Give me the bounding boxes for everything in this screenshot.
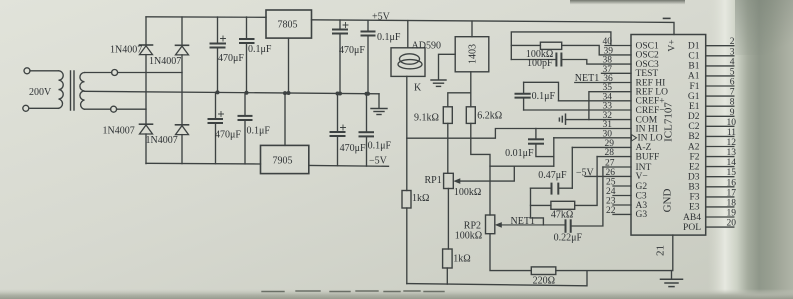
- node dot: [366, 92, 370, 96]
- wire AD590 K output column: [406, 76, 408, 190]
- wire IN LO pin 30 column: [553, 138, 555, 166]
- capacitor 0.01uF (input filter): [529, 129, 554, 157]
- transformer T primary winding: [23, 68, 63, 112]
- IC U ICL7107 body: [631, 35, 706, 236]
- oscillator loop wire (pin 40): [511, 32, 631, 60]
- wire top positive rail (rectifier to 7805): [146, 16, 266, 19]
- svg-text:RP1: RP1: [425, 175, 442, 186]
- svg-text:1N4007: 1N4007: [146, 135, 178, 146]
- pin 35 stub and tie to COM: [589, 92, 631, 120]
- node dot: [245, 91, 249, 95]
- svg-text:A1: A1: [688, 72, 700, 82]
- pin 27 stub (INT): [603, 166, 631, 168]
- svg-text:B3: B3: [688, 183, 699, 193]
- pin 26 stub (V-): [585, 175, 631, 177]
- reference U 1403: [455, 21, 489, 72]
- svg-text:8: 8: [730, 98, 735, 108]
- transformer core: [71, 71, 75, 110]
- svg-text:9.1kΩ: 9.1kΩ: [414, 113, 439, 124]
- svg-text:0.1μF: 0.1μF: [247, 126, 271, 137]
- diode D1 1N4007 column A top: [140, 17, 153, 124]
- capacitor 470uF (output +5V): [333, 20, 348, 94]
- wire secondary bottom to diode column A: [117, 108, 146, 110]
- pin 29 stub (A-Z): [572, 146, 631, 148]
- potentiometer RP2 100k: [486, 215, 566, 271]
- svg-text:470μF: 470μF: [215, 130, 241, 141]
- svg-text:15: 15: [727, 168, 737, 178]
- potentiometer RP1 100k: [444, 166, 515, 249]
- svg-text:G1: G1: [688, 92, 700, 102]
- capacitor 0.1uF (input filter, - rail): [239, 93, 252, 164]
- svg-text:B1: B1: [688, 62, 699, 72]
- wire +5V rail (7805 to ICL7107 V+): [312, 20, 675, 35]
- svg-text:POL: POL: [683, 223, 701, 233]
- wire 1403 ground pin: [439, 54, 456, 79]
- svg-text:10: 10: [727, 118, 737, 128]
- wire bottom negative rail (rectifier to 7905): [146, 162, 261, 165]
- svg-text:100pF: 100pF: [527, 58, 553, 69]
- svg-text:V−: V−: [636, 172, 648, 182]
- svg-text:14: 14: [727, 158, 737, 168]
- svg-text:G2: G2: [636, 182, 648, 192]
- svg-text:E3: E3: [689, 203, 700, 213]
- svg-text:25: 25: [606, 178, 616, 188]
- wire IN LO node (6.2k/RP2 tap to pin 30 column): [490, 165, 554, 167]
- svg-text:AB4: AB4: [683, 213, 701, 223]
- resistor 220 Ohm: [531, 267, 671, 275]
- capacitor 0.47uF (auto-zero): [531, 147, 573, 193]
- capacitor 0.1uF (reference): [516, 82, 559, 110]
- svg-text:K: K: [414, 83, 422, 94]
- svg-text:470μF: 470μF: [339, 45, 365, 56]
- capacitor 0.22uF (integrator): [566, 167, 603, 232]
- node dot: [283, 91, 287, 95]
- pin 30 stub (IN LO): [554, 137, 631, 139]
- pin 34 stub (CREF+): [559, 100, 632, 102]
- pin 36 stub (REF HI, NET1): [575, 82, 631, 84]
- pin names left column: [636, 41, 669, 220]
- svg-text:0.1μF: 0.1μF: [368, 141, 392, 152]
- wire AD590 K to IN HI (pin 31): [407, 129, 631, 139]
- svg-text:+5V: +5V: [372, 12, 391, 23]
- svg-text:C3: C3: [636, 191, 647, 201]
- svg-text:2: 2: [730, 37, 735, 47]
- capacitor 470uF (input filter, - rail): [209, 92, 224, 163]
- resistor 47k (integrator): [531, 157, 598, 210]
- pin 30 input arrow marker: [632, 135, 637, 141]
- pin names right column: [683, 42, 701, 233]
- svg-text:0.01μF: 0.01μF: [505, 148, 534, 159]
- svg-text:D2: D2: [688, 112, 700, 122]
- svg-text:F2: F2: [689, 152, 699, 162]
- svg-text:28: 28: [605, 148, 615, 158]
- svg-text:CREF−: CREF−: [636, 106, 665, 116]
- right pin stubs 2-20: [706, 46, 734, 227]
- resistor 6.2k: [466, 107, 490, 215]
- svg-text:V+: V+: [668, 39, 678, 51]
- regulator U 7905: [261, 145, 309, 173]
- pin 28 stub (BUFF): [597, 156, 631, 158]
- caption fragment marks (clipped figure caption): [262, 290, 444, 293]
- svg-text:A2: A2: [688, 142, 700, 152]
- node dot: [365, 92, 369, 96]
- svg-text:AD590: AD590: [412, 41, 441, 52]
- svg-text:7805: 7805: [278, 20, 298, 31]
- svg-text:0.1μF: 0.1μF: [532, 91, 556, 102]
- svg-text:BUFF: BUFF: [636, 152, 660, 162]
- capacitor 0.1uF (output +5V): [362, 20, 375, 94]
- pin 25 stub: [613, 185, 631, 187]
- resistor 100k (oscillator): [511, 42, 631, 55]
- svg-text:33: 33: [603, 102, 613, 112]
- svg-text:6.2kΩ: 6.2kΩ: [477, 111, 502, 122]
- regulator U 7805: [266, 10, 312, 38]
- top edge dark streak: [570, 0, 685, 5]
- svg-text:0.47μF: 0.47μF: [538, 170, 567, 181]
- svg-text:E1: E1: [689, 102, 700, 112]
- svg-text:4: 4: [730, 57, 735, 67]
- svg-text:22: 22: [606, 206, 616, 216]
- node dot: [216, 90, 220, 94]
- ground symbol (digital ground): [661, 279, 683, 286]
- resistor 1k (divider bottom): [443, 249, 453, 284]
- diode D4 1N4007 column B bottom: [176, 125, 189, 164]
- pin 24 stub: [613, 195, 631, 197]
- svg-text:5: 5: [730, 67, 735, 77]
- svg-text:11: 11: [727, 128, 736, 138]
- svg-text:470μF: 470μF: [340, 143, 366, 154]
- wire ground center line: [85, 91, 380, 94]
- svg-text:0.1μF: 0.1μF: [377, 32, 401, 43]
- svg-text:C1: C1: [688, 52, 699, 62]
- ground symbol (1403): [431, 80, 446, 86]
- pin 37 stub: [602, 72, 632, 74]
- svg-text:C2: C2: [688, 122, 699, 132]
- capacitor 0.1uF (input filter, + rail): [240, 17, 254, 93]
- svg-text:220Ω: 220Ω: [533, 276, 555, 287]
- svg-text:17: 17: [727, 188, 737, 198]
- svg-text:24: 24: [606, 187, 616, 197]
- svg-text:100kΩ: 100kΩ: [455, 231, 482, 242]
- svg-text:F3: F3: [689, 193, 699, 203]
- wire 1403 output to resistor divider: [448, 72, 471, 107]
- svg-text:21: 21: [655, 245, 667, 256]
- svg-text:7905: 7905: [273, 156, 293, 167]
- wire ICL7107 pin21 to ground: [672, 235, 673, 279]
- svg-text:30: 30: [603, 129, 613, 139]
- svg-text:18: 18: [727, 198, 737, 208]
- resistor 9.1k: [443, 107, 452, 174]
- pin numbers right column: [727, 37, 737, 228]
- svg-text:47kΩ: 47kΩ: [551, 210, 573, 221]
- wire GND bottom rail: [407, 271, 587, 286]
- pin 22 stub: [613, 213, 631, 215]
- svg-text:1kΩ: 1kΩ: [412, 193, 429, 204]
- svg-text:26: 26: [606, 168, 616, 178]
- node dot: [336, 92, 340, 96]
- node dot: [338, 92, 342, 96]
- ground symbol (analog ground of supply): [371, 94, 387, 115]
- svg-text:7: 7: [730, 88, 735, 98]
- pin 23 stub: [613, 204, 631, 206]
- wire secondary top to diode column B: [118, 72, 182, 74]
- svg-text:13: 13: [727, 148, 737, 158]
- diode D2 1N4007 column B top: [176, 17, 189, 125]
- svg-text:F1: F1: [689, 82, 699, 92]
- common symbol (rotated ground at COM): [559, 114, 565, 124]
- svg-text:16: 16: [727, 178, 737, 188]
- svg-text:IN LO: IN LO: [638, 134, 663, 144]
- svg-text:3: 3: [730, 47, 735, 57]
- svg-text:200V: 200V: [29, 87, 52, 98]
- small scan artifact dash: [664, 17, 670, 19]
- wire 7805 GND pin to ground line: [288, 38, 290, 93]
- svg-text:12: 12: [727, 138, 737, 148]
- pin 33 stub (CREF-): [524, 109, 631, 111]
- svg-text:9: 9: [730, 108, 735, 118]
- wire junction J down-step to NET1 line: [531, 188, 544, 225]
- svg-text:1N4007: 1N4007: [149, 56, 181, 67]
- capacitor 470uF (input filter, + rail): [211, 17, 226, 92]
- capacitor 100pF (oscillator): [511, 54, 631, 66]
- svg-text:1kΩ: 1kΩ: [453, 254, 470, 265]
- transformer T secondary winding: [80, 70, 118, 113]
- svg-text:0.1μF: 0.1μF: [248, 44, 272, 55]
- node dot: [287, 91, 291, 95]
- svg-text:1N4007: 1N4007: [110, 45, 142, 56]
- svg-text:19: 19: [727, 209, 737, 219]
- wire -5V rail (7905 output): [309, 164, 389, 167]
- capacitor 0.1uF (output -5V): [360, 94, 374, 166]
- wire 7905 GND pin to ground line: [284, 93, 286, 145]
- svg-text:470μF: 470μF: [218, 53, 244, 64]
- svg-text:E2: E2: [689, 162, 700, 172]
- svg-text:NET1: NET1: [575, 73, 599, 84]
- bottom edge strip: [0, 289, 793, 299]
- diode D3 1N4007 column A bottom: [140, 124, 153, 163]
- svg-text:−5V: −5V: [369, 156, 388, 167]
- capacitor 470uF (output -5V): [331, 94, 346, 166]
- svg-text:0.22μF: 0.22μF: [554, 233, 583, 244]
- resistor 1k (AD590 load): [402, 191, 411, 284]
- svg-text:D3: D3: [688, 173, 700, 183]
- svg-text:G3: G3: [636, 210, 648, 220]
- sensor U AD590: [391, 21, 425, 77]
- top-right corner shadow: [735, 0, 793, 55]
- right page-curl dark band: [708, 0, 793, 299]
- pin numbers left column: [603, 37, 616, 216]
- pin 32 stub (COM): [566, 119, 632, 121]
- svg-text:1N4007: 1N4007: [103, 126, 135, 137]
- svg-text:1403: 1403: [468, 44, 479, 64]
- svg-text:100kΩ: 100kΩ: [454, 187, 481, 198]
- svg-text:GND: GND: [662, 189, 674, 213]
- svg-text:D1: D1: [688, 42, 700, 52]
- svg-text:20: 20: [727, 219, 737, 229]
- svg-text:B2: B2: [688, 132, 699, 142]
- svg-text:6: 6: [730, 78, 735, 88]
